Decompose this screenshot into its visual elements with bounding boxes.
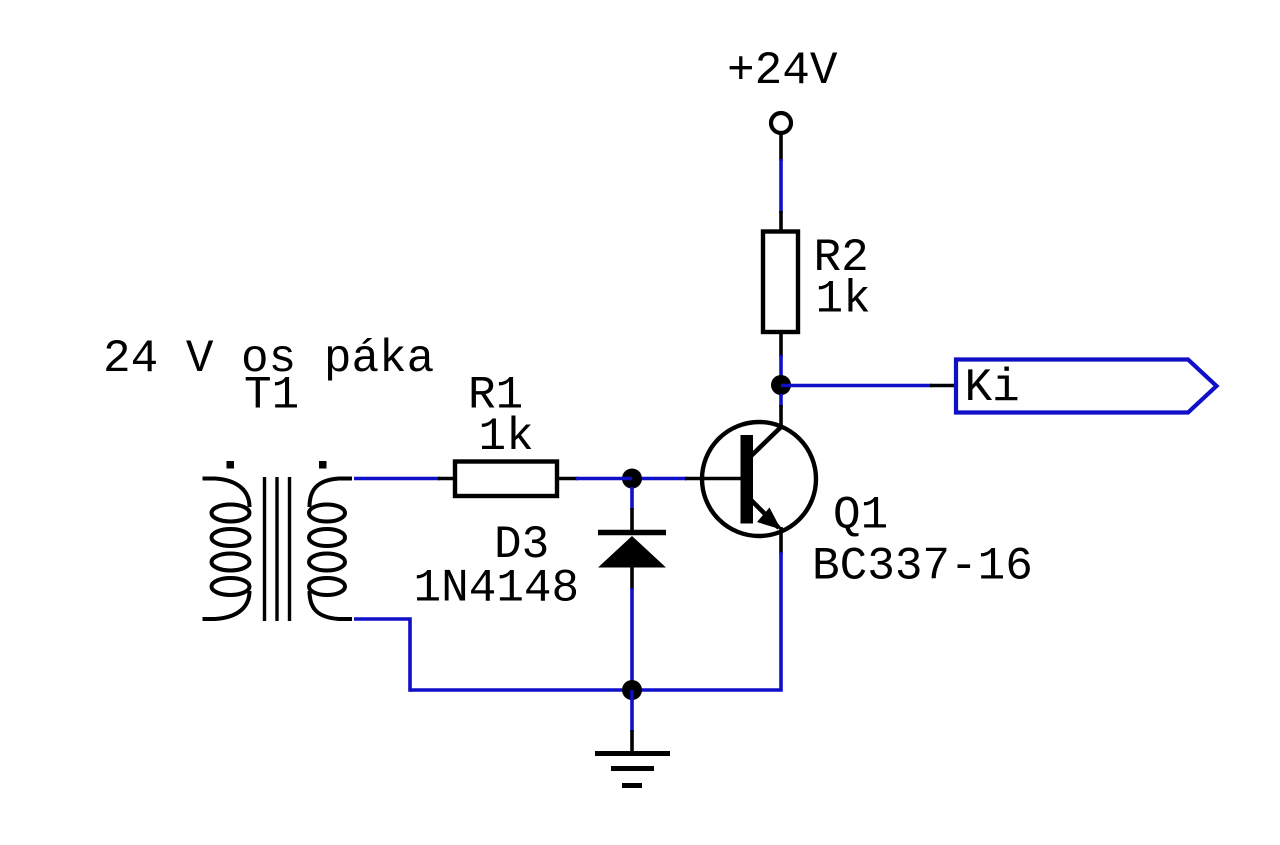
- wire: node to collector pin (blue then black): [779, 394, 783, 407]
- wire: R2 top pin (black): [779, 211, 783, 233]
- diode D3 cathode bar: [598, 530, 666, 536]
- transistor Q1 body circle: [702, 422, 816, 536]
- transformer T1 polarity dot left: [227, 461, 235, 469]
- transistor Q1 emitter pin: [779, 527, 783, 554]
- svg-text:T1: T1: [244, 370, 299, 422]
- svg-text:1k: 1k: [479, 411, 534, 463]
- ground pin (black): [630, 730, 634, 753]
- transformer T1 secondary winding: [309, 479, 352, 620]
- svg-text:+24V: +24V: [727, 45, 838, 97]
- wire: R2 to collector node (blue): [779, 355, 783, 396]
- wire: power pin stub (black): [779, 133, 783, 161]
- svg-text:Ki: Ki: [965, 362, 1020, 414]
- transistor Q1 emitter arrow: [757, 508, 781, 530]
- wire: base wire blue: [632, 477, 687, 481]
- transistor Q1 collector arm: [751, 426, 782, 456]
- wire: +24V to R2 (blue): [779, 159, 783, 213]
- hierarchical label Ki: [956, 360, 1217, 413]
- svg-text:BC337-16: BC337-16: [812, 541, 1033, 593]
- transistor Q1 base pin (black): [685, 477, 741, 481]
- junction node collector: [771, 375, 791, 395]
- resistor R1 left pin (black): [438, 477, 456, 481]
- wire: R1 to base node (blue): [576, 477, 632, 481]
- wire: emitter to bottom rail (blue): [410, 552, 781, 690]
- transistor Q1 base bar: [741, 435, 754, 524]
- svg-text:Q1: Q1: [833, 490, 888, 542]
- diode D3 anode triangle: [598, 536, 666, 568]
- transistor Q1 emitter arm: [751, 500, 779, 528]
- wire: transformer to R1 (blue): [354, 477, 440, 481]
- resistor R1: [455, 462, 557, 497]
- wire: Ki flag pin stub (black): [930, 384, 956, 388]
- junction node base: [622, 469, 642, 489]
- transformer T1 core: [265, 477, 290, 621]
- resistor R1 right pin (black): [556, 477, 578, 481]
- transistor Q1 collector pin: [779, 405, 783, 429]
- wire: diode to bottom rail (blue): [630, 588, 634, 690]
- diode D3 cathode pin (black): [630, 508, 634, 531]
- power terminal circle: [771, 113, 791, 133]
- ground symbol: [595, 754, 670, 786]
- transformer T1 primary winding: [203, 479, 250, 620]
- wire: R2 bottom pin (black): [779, 332, 783, 357]
- diode D3 anode pin (black): [630, 566, 634, 590]
- wire: bottom rail riser to transformer (blue): [354, 619, 410, 692]
- svg-text:1N4148: 1N4148: [414, 563, 580, 615]
- wire: collector node to Ki flag (blue): [781, 384, 932, 388]
- wire: base node to diode (blue): [630, 487, 634, 510]
- wire: rail to ground (blue): [630, 690, 634, 732]
- resistor R2: [763, 232, 798, 333]
- transformer T1 polarity dot right: [319, 461, 327, 469]
- svg-text:1k: 1k: [816, 274, 871, 326]
- junction node ground rail: [622, 680, 642, 700]
